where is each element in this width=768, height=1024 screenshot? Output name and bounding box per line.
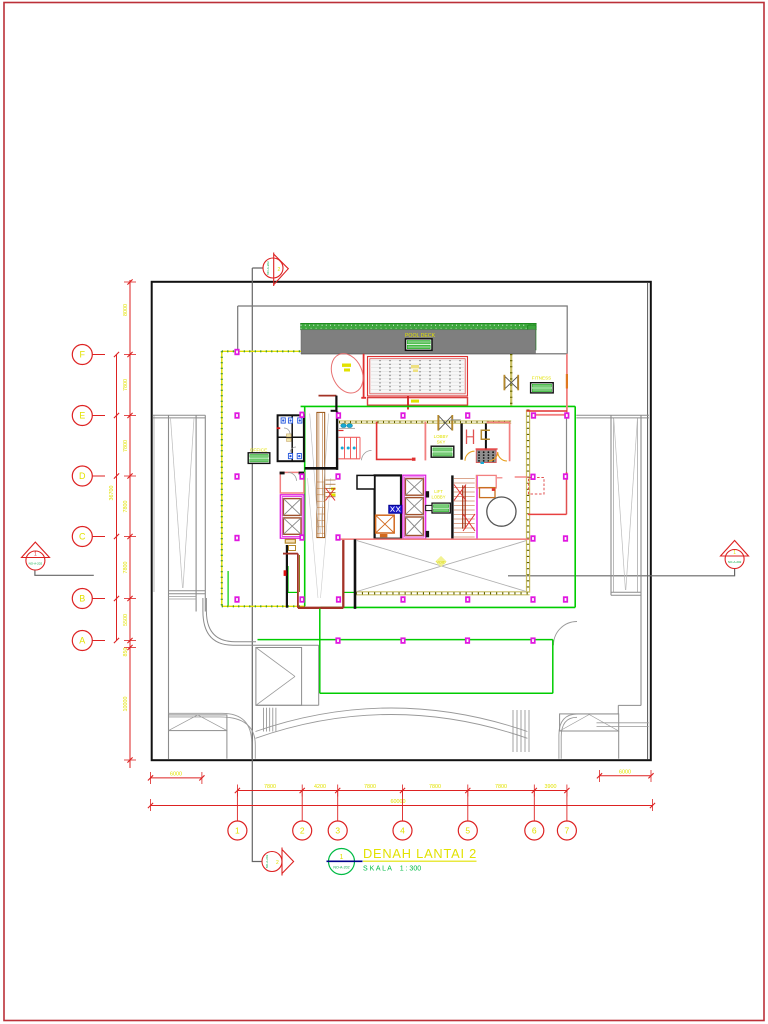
void label <box>435 556 446 567</box>
pool deck planter hatch top <box>301 323 537 330</box>
svg-text:DENAH LANTAI 2: DENAH LANTAI 2 <box>363 846 477 861</box>
left curb <box>169 713 252 758</box>
toilet block left <box>278 415 304 461</box>
dim line left outer <box>116 355 118 641</box>
green stub core a <box>287 591 298 593</box>
svg-text:7800: 7800 <box>123 501 129 513</box>
tan shape below elevators <box>285 539 295 543</box>
wall black stair <box>451 475 453 538</box>
svg-text:NO-A-202: NO-A-202 <box>333 865 349 869</box>
section marker bottom <box>262 852 282 872</box>
svg-text:7800: 7800 <box>123 379 129 391</box>
wall salmon right lower <box>566 472 568 514</box>
pool spa ellipse <box>325 349 369 398</box>
red wall L lobby <box>377 422 412 460</box>
green stub core b <box>343 591 355 593</box>
svg-text:5500: 5500 <box>123 614 129 626</box>
toilet stalls <box>339 436 361 438</box>
void cross <box>357 541 526 592</box>
pink room <box>280 472 304 493</box>
right x box <box>560 714 619 731</box>
stair label yellow <box>331 488 336 491</box>
green corner arc <box>553 622 577 646</box>
door frame bracket <box>481 430 490 439</box>
left x box <box>169 715 227 731</box>
dim 6000 left <box>151 777 202 779</box>
svg-text:10000: 10000 <box>123 697 129 712</box>
small stair treads <box>326 479 336 481</box>
red chair cluster <box>529 478 545 495</box>
svg-text:8000: 8000 <box>123 304 129 316</box>
svg-text:C: C <box>79 532 86 542</box>
salmon room above circle <box>476 475 496 488</box>
pool deck planter hatch right <box>528 325 536 350</box>
column bowtie lobby <box>439 416 452 430</box>
blue pantry box <box>389 505 402 513</box>
escalator shaft <box>317 412 325 537</box>
red H chair a <box>466 430 468 445</box>
toilet wc fixtures <box>281 418 285 423</box>
svg-text:LOBBY: LOBBY <box>432 494 446 499</box>
black tabs elevator <box>426 491 429 497</box>
section line left L <box>35 570 94 575</box>
svg-text:4200: 4200 <box>314 784 326 790</box>
right road step <box>618 704 641 706</box>
pool inner rect <box>370 359 465 394</box>
driveway arc a <box>256 708 528 732</box>
section marker left <box>26 551 45 570</box>
svg-text:6: 6 <box>532 826 537 836</box>
right ramp bottom lines <box>611 591 641 593</box>
wall black mid <box>460 423 462 459</box>
toilet door arcs <box>284 428 290 434</box>
svg-text:NO-A-202: NO-A-202 <box>728 560 742 564</box>
driveway arc b <box>256 715 528 739</box>
svg-text:2: 2 <box>300 826 305 836</box>
svg-text:7800: 7800 <box>495 784 507 790</box>
left ramp bottom lines <box>169 590 206 592</box>
wall black mid2 <box>485 423 487 450</box>
pool spa label <box>342 364 351 367</box>
site boundary <box>152 282 651 760</box>
fitness legend box <box>531 383 554 393</box>
toilet door arc <box>362 451 372 461</box>
core top wall band <box>339 420 511 422</box>
small stair cross <box>326 488 336 501</box>
section marker right <box>725 550 744 569</box>
fitness legend rows <box>532 384 551 387</box>
pool center label <box>411 365 419 368</box>
toilet red mark <box>339 430 344 432</box>
svg-text:2: 2 <box>276 860 279 866</box>
svg-text:7800: 7800 <box>364 784 376 790</box>
svg-text:7800: 7800 <box>264 784 276 790</box>
svg-text:SKY: SKY <box>437 439 446 444</box>
grid bubbles letters <box>72 345 92 365</box>
elevator bank center <box>403 475 426 539</box>
green stub core c <box>287 566 289 592</box>
pool lane hatch <box>371 360 464 362</box>
pool outer rect <box>368 357 468 397</box>
left ramp edges <box>153 415 155 592</box>
road bay walls <box>318 645 320 705</box>
right x box below <box>618 731 620 759</box>
shaft small room <box>357 475 375 489</box>
green apron mid line <box>258 639 553 641</box>
elevator car L1 <box>283 499 301 516</box>
section marker top <box>263 258 283 278</box>
escalator steps <box>317 481 325 483</box>
left stair hatch <box>263 708 265 732</box>
green apron right <box>552 640 554 694</box>
right ramp edges <box>610 415 612 595</box>
section line vertical <box>252 268 262 862</box>
svg-text:7800: 7800 <box>429 784 441 790</box>
lobby legend box <box>431 446 454 457</box>
maroon room <box>283 553 298 555</box>
wall black pool corner v <box>335 396 337 412</box>
wall red top <box>527 410 567 412</box>
toilet sinks <box>341 424 346 428</box>
wall magenta stair <box>476 475 478 538</box>
pool deck legend box <box>406 339 433 351</box>
column circle <box>487 497 516 526</box>
wall salmon room top <box>487 422 510 461</box>
wall salmon core bottom <box>337 538 530 540</box>
pool deck bottom edge <box>301 353 567 355</box>
left x box below <box>226 731 228 759</box>
roof outline top <box>238 306 568 354</box>
svg-text:3: 3 <box>335 826 340 836</box>
pink room door arc <box>288 472 297 481</box>
wall salmon h <box>534 414 567 416</box>
road line mid <box>256 644 319 646</box>
right road pair <box>597 722 649 724</box>
svg-text:3900: 3900 <box>545 784 557 790</box>
right ramp vee <box>614 419 626 590</box>
maroon wall bottom <box>298 607 343 609</box>
svg-text:4: 4 <box>400 826 405 836</box>
dim line bottom inner <box>237 790 567 792</box>
plate outline bottom <box>222 605 305 607</box>
wall black lower left <box>286 545 288 608</box>
svg-text:1: 1 <box>235 826 240 836</box>
svg-text:D: D <box>79 471 86 481</box>
pool left edge line <box>361 354 366 398</box>
site inner line right <box>647 283 649 760</box>
green edge right <box>574 406 576 607</box>
wall black pool corner h <box>331 410 337 412</box>
red tiny rect <box>284 570 287 576</box>
left ramp top lines <box>153 414 205 416</box>
elevator car L2 <box>283 518 301 534</box>
title underline <box>363 860 477 862</box>
pink room black corners <box>280 472 285 475</box>
column bowtie fitness <box>505 377 518 389</box>
pool deck legend rows <box>407 341 430 344</box>
svg-text:7800: 7800 <box>123 562 129 574</box>
door bits right <box>497 477 502 479</box>
toilet wc dots <box>341 447 344 450</box>
svg-text:1: 1 <box>733 550 736 556</box>
title circle <box>329 849 355 875</box>
table dotted right <box>476 448 498 450</box>
elevator bank left <box>280 495 304 538</box>
svg-text:5: 5 <box>465 826 470 836</box>
svg-text:LOBBY: LOBBY <box>434 434 449 439</box>
wall maroon pool corner <box>319 395 337 397</box>
svg-text:6000: 6000 <box>619 769 631 775</box>
tan door lower <box>289 546 296 551</box>
pool drain line <box>407 396 409 410</box>
maroon wall right <box>342 540 344 608</box>
elevator car C1 <box>405 479 423 496</box>
column markers <box>234 349 239 355</box>
elevator car orange <box>376 515 395 533</box>
svg-text:6000: 6000 <box>170 771 182 777</box>
lift lobby legend box <box>432 503 450 513</box>
green stub left bottom <box>227 571 229 606</box>
dim line left inner <box>129 280 131 768</box>
svg-text:NO-A-202: NO-A-202 <box>266 261 270 275</box>
green edge top <box>301 405 576 407</box>
toilet block inner walls <box>291 415 293 461</box>
section line horizontal right <box>508 569 735 576</box>
toilet red tick <box>277 427 281 429</box>
svg-text:60000: 60000 <box>391 799 406 805</box>
door arc right of table <box>489 452 507 461</box>
shaft mid <box>375 475 401 538</box>
svg-text:36700: 36700 <box>109 486 115 501</box>
svg-text:S K A L A 1 : 300: S K A L A 1 : 300 <box>363 866 421 873</box>
pool gutter label <box>411 400 419 403</box>
orange desk <box>480 488 496 498</box>
grid bubbles numbers <box>236 791 238 822</box>
teal mark table <box>481 462 484 464</box>
escalator vee lower <box>308 478 319 598</box>
stair treads right <box>454 478 475 480</box>
svg-text:1: 1 <box>34 552 37 558</box>
wall salmon lobby <box>424 422 426 461</box>
door arc left of table <box>465 451 475 461</box>
olive wall fitness <box>510 354 512 406</box>
svg-text:NO-A-202: NO-A-202 <box>265 854 269 868</box>
escalator vee upper <box>310 414 319 534</box>
left ramp vee <box>171 418 183 588</box>
green apron left <box>319 609 321 694</box>
plate outline top <box>222 350 301 352</box>
svg-text:850: 850 <box>123 648 129 657</box>
green edge bottom <box>321 606 576 608</box>
svg-text:E: E <box>79 411 85 421</box>
svg-text:LIFT: LIFT <box>434 489 443 494</box>
wall black col3 <box>336 412 338 470</box>
office legend box <box>248 453 270 464</box>
svg-text:A: A <box>79 636 85 646</box>
road corner left inner <box>206 598 256 642</box>
table dots <box>478 451 480 453</box>
wall orange overlay <box>566 374 568 389</box>
olive band bottom <box>356 591 530 593</box>
title divider navy <box>327 860 363 862</box>
right stair hatch <box>512 710 514 752</box>
elevator car C3 <box>405 517 423 536</box>
dim 6000 right <box>600 775 652 777</box>
right ramp top lines <box>576 414 649 416</box>
elevator car C2 <box>405 498 423 515</box>
svg-text:7: 7 <box>565 826 570 836</box>
dim line bottom total <box>151 805 653 807</box>
svg-text:F: F <box>80 350 86 360</box>
stair cross red a <box>454 485 466 501</box>
svg-text:VOID: VOID <box>436 561 446 565</box>
svg-text:7800: 7800 <box>123 440 129 452</box>
svg-text:1: 1 <box>340 854 344 861</box>
wall black lower <box>354 539 357 609</box>
svg-text:B: B <box>79 594 85 604</box>
plate outline left <box>221 351 223 606</box>
right curb <box>559 714 618 759</box>
stair center rail <box>462 485 464 528</box>
pool gutter tray <box>368 398 468 406</box>
svg-text:NO-A-202: NO-A-202 <box>29 562 43 566</box>
wall grey right <box>566 417 568 473</box>
roof outline left drop <box>237 306 239 351</box>
stair cross red b <box>463 514 475 531</box>
toilet sinks yellow <box>287 434 292 437</box>
olive band right <box>526 410 528 593</box>
svg-text:2: 2 <box>278 267 281 273</box>
pool deck slab <box>301 330 536 354</box>
triangle box <box>256 648 302 706</box>
wall salmon right upper <box>566 354 568 416</box>
green apron bottom <box>320 692 553 694</box>
wall red divider <box>528 513 567 515</box>
road corner left outer <box>203 598 256 645</box>
svg-text:FITNESS: FITNESS <box>532 376 551 381</box>
green edge left <box>304 406 306 606</box>
orange mark <box>380 534 388 537</box>
grey door line <box>451 419 461 421</box>
wall black corridor <box>305 467 336 470</box>
